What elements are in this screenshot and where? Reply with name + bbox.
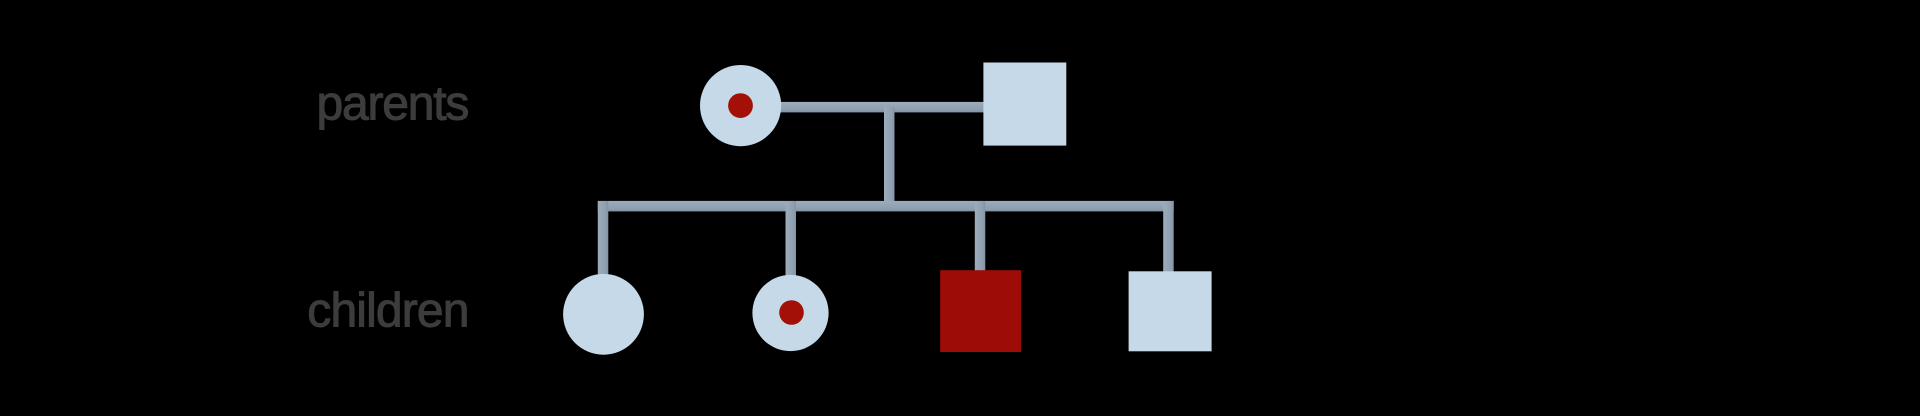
svg-text:parents: parents — [316, 78, 468, 131]
svg-text:children: children — [307, 285, 468, 338]
